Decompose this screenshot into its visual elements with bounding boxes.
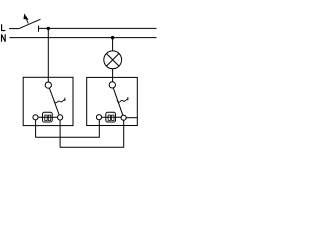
junction on L: [47, 27, 50, 30]
switch Q2 pivot: [109, 82, 115, 88]
wire Q2 terminal 2 to box edge: [126, 117, 137, 119]
switch Q2 terminal 1: [96, 115, 101, 120]
switch Q1 glow lamp module: [43, 112, 53, 122]
junction on N: [111, 36, 115, 40]
wire L bus: [39, 27, 157, 29]
wire terminal 1 to glow lamp: [38, 116, 57, 118]
wire Q2 terminal 1 to glow lamp: [102, 116, 121, 118]
switch S0 blade: [19, 19, 41, 28]
switch Q1 blade: [49, 88, 59, 115]
switch Q1 actuator squiggle: [54, 98, 65, 103]
lamp E1: [104, 51, 122, 69]
wire N bus: [9, 37, 156, 39]
switch Q2 blade: [113, 88, 123, 115]
switch Q2 actuator squiggle: [117, 97, 128, 102]
wire traveler 2: [60, 120, 124, 147]
switch Q1 terminal 1: [33, 115, 38, 120]
switch S0 actuation arrow: [24, 13, 29, 23]
wire traveler 1: [36, 120, 100, 138]
switch box Q2: [87, 77, 138, 125]
switch box Q1: [23, 77, 73, 125]
wire lamp to switch Q2 pivot: [112, 69, 114, 82]
wire L to switch Q1 pivot: [47, 28, 49, 82]
switch Q1 pivot: [45, 82, 51, 88]
switch Q2 terminal 2: [121, 115, 126, 120]
wire L stub: [9, 28, 19, 30]
wire N to lamp: [112, 38, 114, 51]
switch Q1 terminal 2: [58, 115, 63, 120]
node N label: [2, 34, 6, 42]
node L label: [2, 24, 6, 30]
switch Q2 glow lamp module: [106, 112, 116, 122]
switch S0 fixed contact: [38, 26, 40, 32]
